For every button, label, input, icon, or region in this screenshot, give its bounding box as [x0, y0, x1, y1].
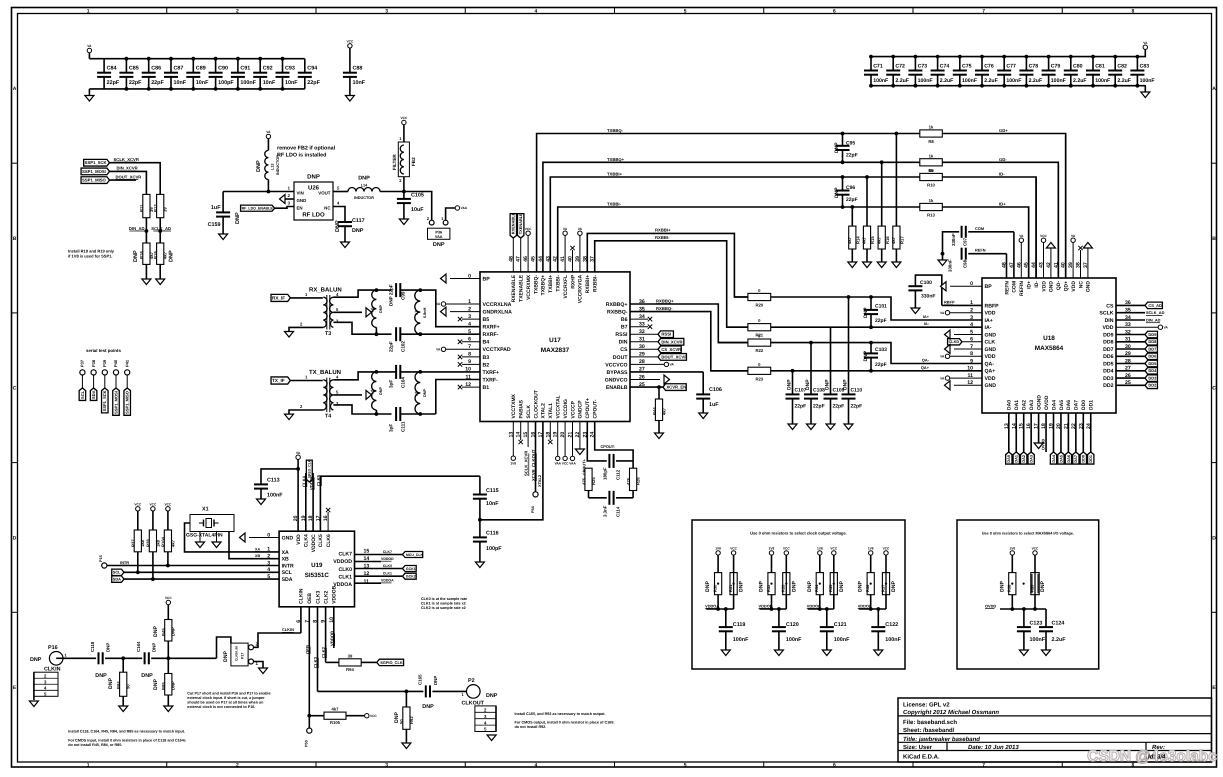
net label TXENABLE vertical	[518, 213, 524, 272]
svg-text:39: 39	[163, 207, 168, 212]
svg-text:do not install R92.: do not install R92.	[515, 725, 547, 729]
ground arrow up U18 GND pin37	[1083, 243, 1092, 279]
net label DD6	[1116, 353, 1157, 360]
capacitor C102 22pF	[389, 327, 481, 352]
svg-text:XA: XA	[255, 547, 260, 551]
svg-text:SSP1_MOSI: SSP1_MOSI	[113, 391, 118, 414]
wire QD+ riser to U18 pin40	[1065, 136, 1067, 278]
svg-text:PABIAS: PABIAS	[519, 399, 525, 418]
net label VREG_CLK vertical	[306, 459, 312, 482]
capacitor C114 3.3nF loop filter bottom row	[589, 491, 634, 518]
svg-text:XA: XA	[282, 550, 289, 556]
svg-text:B1: B1	[483, 385, 490, 391]
connector P16 table	[29, 672, 58, 706]
test point P39 SSP1_SCK	[102, 359, 109, 413]
svg-text:DA0: DA0	[1007, 455, 1011, 463]
svg-text:VDDOA: VDDOA	[381, 579, 394, 583]
svg-text:QD-: QD-	[1056, 281, 1062, 291]
svg-text:VCCRXVGA: VCCRXVGA	[578, 275, 584, 304]
svg-text:U19: U19	[311, 562, 323, 569]
capacitor C72	[886, 55, 909, 88]
svg-text:1: 1	[87, 763, 90, 769]
capacitor C103 22pF DNP	[863, 343, 887, 371]
svg-text:C79: C79	[1051, 63, 1061, 69]
svg-text:B: B	[1212, 236, 1216, 242]
ground P17 pin1	[254, 662, 268, 674]
svg-text:NC: NC	[1078, 281, 1084, 289]
svg-text:VCC: VCC	[562, 462, 569, 466]
svg-text:2.2uF: 2.2uF	[940, 78, 954, 84]
svg-text:SSP1_SCK: SSP1_SCK	[85, 160, 107, 165]
svg-text:C104: C104	[401, 377, 406, 388]
svg-text:100nF: 100nF	[1140, 78, 1155, 84]
svg-text:DNP: DNP	[171, 681, 176, 690]
svg-text:4k7: 4k7	[891, 236, 896, 244]
net label SCLK_XCVR vertical	[524, 422, 529, 477]
svg-text:U18: U18	[1043, 335, 1055, 342]
svg-text:VCCRXFL: VCCRXFL	[563, 275, 569, 299]
svg-text:DOUT: DOUT	[613, 355, 629, 361]
svg-text:R20: R20	[755, 303, 763, 308]
svg-text:DD8: DD8	[1103, 340, 1113, 346]
svg-text:CLK: CLK	[985, 340, 996, 346]
svg-text:VDD: VDD	[985, 311, 996, 317]
svg-text:VCCTXPAD: VCCTXPAD	[483, 347, 511, 353]
svg-text:VA: VA	[436, 348, 441, 352]
wire C118 to C164	[105, 657, 142, 659]
net label DD8	[1116, 339, 1157, 346]
ground arrow U18 GND pin12	[945, 381, 983, 390]
power VCC for R39	[1032, 547, 1039, 573]
net label VDDOA U19 pin11	[355, 579, 395, 584]
svg-text:2.2uF: 2.2uF	[895, 78, 909, 84]
svg-text:CLK0 is at the sample rate: CLK0 is at the sample rate	[421, 597, 467, 601]
svg-text:1k: 1k	[929, 125, 934, 130]
svg-text:R104: R104	[161, 536, 166, 547]
svg-text:DD4: DD4	[1103, 369, 1113, 375]
svg-text:22pF: 22pF	[307, 80, 320, 86]
svg-text:DNP: DNP	[106, 643, 111, 652]
svg-text:EN: EN	[297, 206, 303, 211]
svg-text:C102: C102	[401, 341, 406, 352]
wire VDDOB junction row	[771, 595, 773, 609]
test point P15 INTR wire	[99, 555, 279, 568]
svg-text:DA5: DA5	[1059, 455, 1063, 463]
svg-text:DIN_XCVR: DIN_XCVR	[117, 166, 138, 171]
ic U17 MAX2837	[480, 272, 630, 422]
svg-text:should be used on P17 at all t: should be used on P17 at all times when …	[187, 701, 264, 705]
net label DIN_AD	[1116, 318, 1161, 323]
test point P37 SCL	[79, 359, 86, 400]
svg-text:SSP1_MISO: SSP1_MISO	[125, 391, 130, 414]
power VA U17 VCCRXFL	[563, 227, 568, 272]
svg-text:R84: R84	[116, 681, 121, 689]
svg-text:R105: R105	[330, 720, 341, 725]
svg-text:GND: GND	[985, 383, 997, 389]
net label SSP1_MOSI	[81, 168, 109, 175]
svg-text:1k: 1k	[929, 153, 934, 158]
svg-text:R19: R19	[153, 251, 158, 259]
svg-text:DNP: DNP	[433, 242, 445, 248]
svg-text:TXENABLE: TXENABLE	[519, 274, 525, 302]
wire T3 pin4 to RX top node	[333, 290, 391, 297]
wire TX top node to U17 TXRF+	[392, 371, 397, 373]
svg-text:VDDOC: VDDOC	[309, 475, 314, 490]
wire VDDOD junction row	[870, 595, 872, 609]
svg-text:1V8: 1V8	[715, 547, 721, 551]
note CLK0 sample rate	[421, 597, 467, 610]
svg-text:DD3: DD3	[1148, 376, 1157, 381]
power VA U18 VDD pin39	[1071, 234, 1076, 278]
resistor R25 475	[581, 468, 596, 490]
svg-text:REFN: REFN	[1004, 281, 1010, 295]
svg-text:P15: P15	[99, 555, 103, 562]
wire U19 OEB to R105 and P50	[304, 607, 312, 747]
svg-text:22pF: 22pF	[833, 404, 845, 410]
ground for C71-C83 bank	[1137, 86, 1149, 98]
svg-text:VAA: VAA	[554, 462, 561, 466]
svg-text:CLK2 is at sample rate x2: CLK2 is at sample rate x2	[421, 606, 466, 610]
svg-text:SGPIO_CLK: SGPIO_CLK	[380, 660, 403, 665]
svg-text:XCVR_CLKOUT: XCVR_CLKOUT	[531, 449, 536, 481]
svg-text:P50: P50	[304, 740, 308, 747]
svg-text:RXBBI-: RXBBI-	[655, 235, 670, 240]
svg-text:DD7: DD7	[1103, 347, 1113, 353]
svg-text:VA: VA	[940, 311, 945, 315]
title block text size date rev	[903, 744, 1165, 751]
svg-text:C75: C75	[962, 63, 972, 69]
svg-text:45: 45	[531, 256, 537, 262]
resistor R105 4k7	[309, 707, 377, 726]
wire TXBBQ- from U17 to R8	[537, 134, 920, 272]
svg-text:4: 4	[970, 322, 973, 328]
svg-text:QD+: QD+	[1064, 281, 1070, 292]
power VCC U17 VCCRXMX	[525, 227, 532, 272]
net label DA6 vertical	[1065, 413, 1071, 464]
svg-text:RSSI: RSSI	[661, 332, 671, 337]
svg-text:330nF: 330nF	[951, 233, 956, 246]
net label CS_XCVR	[630, 346, 681, 353]
wire CLK1 to GCK2	[355, 572, 417, 580]
ground for C84-C94 bank	[85, 89, 94, 101]
ground arrow U26 GND pin	[280, 195, 295, 204]
connector P17 CLKIN_IN jumper DNP	[223, 642, 259, 667]
svg-text:R34: R34	[814, 584, 819, 592]
svg-text:Copyright 2012 Michael Ossmann: Copyright 2012 Michael Ossmann	[903, 709, 999, 716]
svg-text:DNP: DNP	[108, 678, 114, 689]
svg-text:DD3: DD3	[1103, 376, 1113, 382]
svg-text:CS: CS	[620, 347, 628, 353]
svg-text:B4: B4	[483, 340, 490, 346]
resistor R15 4k7	[862, 175, 876, 267]
svg-text:1V8: 1V8	[510, 461, 516, 465]
svg-text:1k8: 1k8	[140, 539, 145, 547]
U17 top pin names and numbers	[508, 256, 598, 303]
svg-text:DA4: DA4	[1052, 454, 1056, 462]
svg-text:C120: C120	[786, 622, 799, 628]
no-connect U17 PABIAS	[519, 422, 523, 445]
svg-text:RXBBI+: RXBBI+	[655, 227, 671, 232]
svg-text:DOUT_XCVR: DOUT_XCVR	[116, 174, 142, 179]
svg-text:VA: VA	[940, 376, 945, 380]
svg-text:RSSI: RSSI	[615, 332, 628, 338]
svg-text:15: 15	[364, 549, 370, 555]
svg-text:DNP 22pF: DNP 22pF	[389, 284, 394, 306]
svg-text:DNP: DNP	[133, 250, 139, 262]
svg-text:VDDOB: VDDOB	[759, 603, 773, 608]
capacitor C91	[231, 57, 257, 91]
svg-text:VCC: VCC	[150, 502, 157, 506]
svg-text:1k8: 1k8	[155, 539, 160, 547]
no-connect U17 XTAL1	[548, 422, 552, 445]
net label VDDOD U19 pin14	[355, 557, 395, 562]
net label DD4	[1116, 368, 1157, 375]
svg-text:6: 6	[833, 763, 836, 769]
svg-text:VA: VA	[296, 451, 301, 455]
svg-text:GND: GND	[985, 332, 997, 338]
svg-text:BP: BP	[483, 276, 491, 282]
resistor R12 39	[153, 194, 168, 217]
wire U17 BYPASS to C106	[630, 371, 703, 373]
svg-text:DA0: DA0	[1007, 400, 1013, 410]
wire RXBBI- U17 pin37 to R21	[595, 241, 748, 327]
svg-text:DD0: DD0	[1081, 400, 1087, 410]
wire RBFP to U18 pin1	[942, 304, 982, 306]
net label DD9	[1116, 331, 1157, 338]
note cut P17	[187, 692, 270, 710]
net label VDDOB	[759, 603, 773, 608]
svg-text:CS_XCVR: CS_XCVR	[661, 347, 681, 352]
U18 right pin names and numbers	[1099, 300, 1131, 389]
svg-text:R30: R30	[713, 584, 718, 592]
svg-text:DD8: DD8	[1148, 339, 1157, 344]
resistor R22 0 ohm	[718, 334, 770, 354]
svg-text:ID-: ID-	[1034, 281, 1040, 288]
svg-text:COM: COM	[1012, 281, 1018, 293]
svg-text:DA6: DA6	[1067, 455, 1071, 463]
svg-text:100nF: 100nF	[1006, 78, 1021, 84]
ground R19	[156, 264, 165, 284]
svg-text:SSP1_SCK: SSP1_SCK	[102, 390, 107, 411]
svg-text:DNP: DNP	[256, 160, 262, 172]
svg-text:VAA: VAA	[435, 235, 443, 239]
resistor R31 DNP	[728, 573, 745, 595]
capacitor C105 10uF	[397, 192, 424, 220]
svg-text:Cut P17 short and install P16: Cut P17 short and install P16 and P17 to…	[187, 692, 270, 696]
svg-text:VCC: VCC	[783, 547, 790, 551]
svg-text:VA: VA	[1164, 325, 1169, 329]
svg-text:SCL: SCL	[113, 570, 121, 575]
resistor R13 1k	[920, 198, 943, 218]
resistor R26 475	[626, 468, 641, 490]
svg-text:10nF: 10nF	[486, 501, 499, 507]
svg-text:C96: C96	[846, 185, 855, 191]
svg-text:C81: C81	[1095, 63, 1105, 69]
no-connect U17 B2	[458, 362, 480, 366]
svg-text:CLK7: CLK7	[383, 550, 392, 554]
svg-text:C97: C97	[963, 237, 968, 246]
svg-text:DNP: DNP	[95, 673, 107, 679]
resistor R10 1k	[920, 168, 943, 188]
svg-text:COM: COM	[975, 226, 984, 231]
svg-text:C95: C95	[846, 141, 855, 147]
wire R21 output to U18 IA-	[771, 326, 982, 328]
svg-text:C84: C84	[107, 66, 117, 72]
svg-text:D: D	[13, 535, 17, 541]
svg-text:10nF: 10nF	[196, 80, 209, 86]
wire R20 output to U18 IA+	[771, 297, 982, 320]
wire L13 to U26 VIN and C159	[223, 191, 294, 193]
svg-text:10nF: 10nF	[285, 80, 298, 86]
svg-text:C122: C122	[885, 622, 898, 628]
power VCC for R35	[830, 547, 837, 573]
wire U17 XTAL2 to C115/C116 junction	[480, 422, 543, 520]
svg-text:100pF: 100pF	[218, 80, 234, 86]
svg-text:R12: R12	[153, 204, 158, 212]
capacitor C79	[1042, 55, 1066, 88]
svg-text:22pF: 22pF	[389, 341, 394, 352]
svg-text:CLKIN_IN: CLKIN_IN	[235, 646, 239, 661]
svg-text:4: 4	[534, 9, 537, 15]
ic U26 RF LDO	[288, 174, 340, 221]
svg-text:GND: GND	[1049, 281, 1055, 293]
net label DA4 vertical	[1050, 413, 1056, 464]
wire L14 to FB2 node	[380, 191, 404, 193]
svg-text:DNP: DNP	[843, 379, 849, 390]
svg-text:XTAL1: XTAL1	[548, 403, 554, 419]
resistor R34 DNP	[807, 573, 824, 595]
svg-text:RF_LDO_ENABLE: RF_LDO_ENABLE	[242, 206, 274, 210]
capacitor C71	[864, 55, 888, 88]
svg-text:C92: C92	[263, 66, 273, 72]
svg-text:R35: R35	[828, 584, 833, 592]
svg-text:3pF: 3pF	[389, 380, 394, 388]
svg-text:100nF: 100nF	[240, 80, 256, 86]
svg-text:SCLK_AD: SCLK_AD	[1146, 310, 1165, 315]
svg-text:OEB: OEB	[305, 645, 310, 654]
capacitor C89	[186, 57, 209, 91]
svg-text:180pF: 180pF	[603, 467, 608, 480]
resistor R27 1k8 pullup	[131, 502, 146, 574]
svg-text:C77: C77	[1006, 63, 1016, 69]
svg-text:MCU_CLK: MCU_CLK	[406, 553, 424, 557]
net label SDA wire to U19	[112, 576, 279, 582]
capacitor C110 22pF DNP	[842, 297, 863, 430]
net label DD1 vertical	[1088, 413, 1094, 464]
connector P2 table	[475, 706, 496, 741]
svg-text:8: 8	[1131, 9, 1134, 15]
capacitor C124 2.2uF	[1039, 612, 1066, 656]
wire ID- riser to U18 pin44	[1035, 178, 1037, 278]
svg-text:CLK1: CLK1	[383, 572, 392, 576]
capacitor C101 22pF DNP	[863, 297, 887, 327]
svg-text:GD+: GD+	[999, 128, 1008, 133]
svg-text:DNP: DNP	[223, 651, 229, 662]
ground arrow U17 GNDVCO	[630, 375, 670, 384]
svg-text:2.2uF: 2.2uF	[1052, 637, 1067, 643]
svg-text:C89: C89	[196, 66, 206, 72]
wire U17 ENABLB to XCVR_EN	[630, 386, 663, 388]
svg-text:DD4: DD4	[1148, 368, 1157, 373]
svg-text:VDDOD: VDDOD	[381, 557, 394, 561]
svg-text:SCLK: SCLK	[526, 405, 532, 419]
svg-text:VCCTXMX: VCCTXMX	[511, 393, 517, 418]
svg-text:9: 9	[970, 358, 973, 364]
svg-text:SSP1_MISO: SSP1_MISO	[82, 178, 106, 183]
svg-text:22pF: 22pF	[875, 362, 887, 368]
svg-text:R44: R44	[652, 407, 657, 415]
svg-text:100nF: 100nF	[962, 78, 977, 84]
svg-text:VDD: VDD	[296, 534, 302, 545]
svg-text:100nF: 100nF	[1051, 78, 1066, 84]
capacitor C112 180pF	[603, 454, 634, 480]
svg-text:C100: C100	[920, 280, 932, 286]
wire ID- to U18	[942, 177, 1036, 278]
wire to P17 jumper	[217, 637, 231, 658]
no-connect U17 B3	[458, 355, 480, 359]
svg-text:DNP: DNP	[394, 712, 400, 723]
wire U19 XB to X1	[229, 532, 279, 559]
capacitor C77	[997, 55, 1021, 88]
resistor R45 DNP pullup	[153, 596, 176, 658]
svg-text:GNDVCO: GNDVCO	[605, 377, 628, 383]
capacitor C100 330nF	[908, 275, 941, 313]
svg-text:L6: L6	[371, 308, 375, 312]
svg-text:IA-: IA-	[924, 321, 930, 326]
power VA U17 VCCXTAL	[554, 422, 561, 466]
svg-text:DA3: DA3	[1029, 400, 1035, 410]
svg-text:C73: C73	[918, 63, 928, 69]
U19 left pin names and numbers	[267, 532, 294, 583]
svg-text:DNP: DNP	[791, 581, 797, 592]
net label RSSI	[630, 331, 673, 338]
svg-text:DNP: DNP	[805, 379, 811, 390]
svg-text:C103: C103	[875, 347, 887, 353]
svg-text:VDDOA: VDDOA	[705, 603, 719, 608]
ground arrow U17 GNDRXLNA	[441, 307, 481, 316]
net label CS_AD	[1116, 302, 1162, 309]
svg-text:VCC: VCC	[165, 502, 172, 506]
title block text kicad	[903, 754, 940, 761]
svg-text:VDDOC: VDDOC	[311, 534, 317, 552]
capacitor C159 1uF DNP	[208, 192, 241, 235]
svg-text:Install C118, C164, R45, R84,: Install C118, C164, R45, R84, and R85 as…	[68, 730, 185, 734]
wire TXBBQ+ from U17 to R9	[543, 162, 920, 272]
svg-text:DNP: DNP	[153, 626, 159, 637]
svg-text:4k7: 4k7	[163, 251, 168, 259]
ground C117	[341, 242, 350, 248]
svg-text:DIN: DIN	[619, 340, 628, 346]
svg-text:T4: T4	[325, 413, 331, 419]
svg-text:DD9: DD9	[1148, 332, 1157, 337]
resistor R11 39	[139, 194, 154, 217]
power net VA for C71-C83 bank	[1137, 41, 1148, 57]
svg-text:B7: B7	[621, 325, 628, 331]
resistor R94 39	[339, 653, 377, 672]
net label XCVR_EN	[663, 384, 686, 391]
svg-text:2.2uF: 2.2uF	[1073, 78, 1087, 84]
svg-text:C123: C123	[1030, 621, 1043, 627]
svg-text:DNP: DNP	[834, 187, 840, 198]
option box MAX5864 IO voltage	[957, 520, 1099, 669]
svg-text:CLKIN: CLKIN	[299, 588, 305, 604]
capacitor C90	[209, 57, 235, 91]
svg-text:DNP: DNP	[379, 305, 383, 313]
svg-text:R39: R39	[1029, 584, 1034, 592]
svg-text:RXBBQ+: RXBBQ+	[606, 302, 628, 308]
wire ID+ riser to U18 pin45	[1028, 207, 1030, 278]
net label CLK4 vertical U19 pin19	[302, 473, 307, 531]
